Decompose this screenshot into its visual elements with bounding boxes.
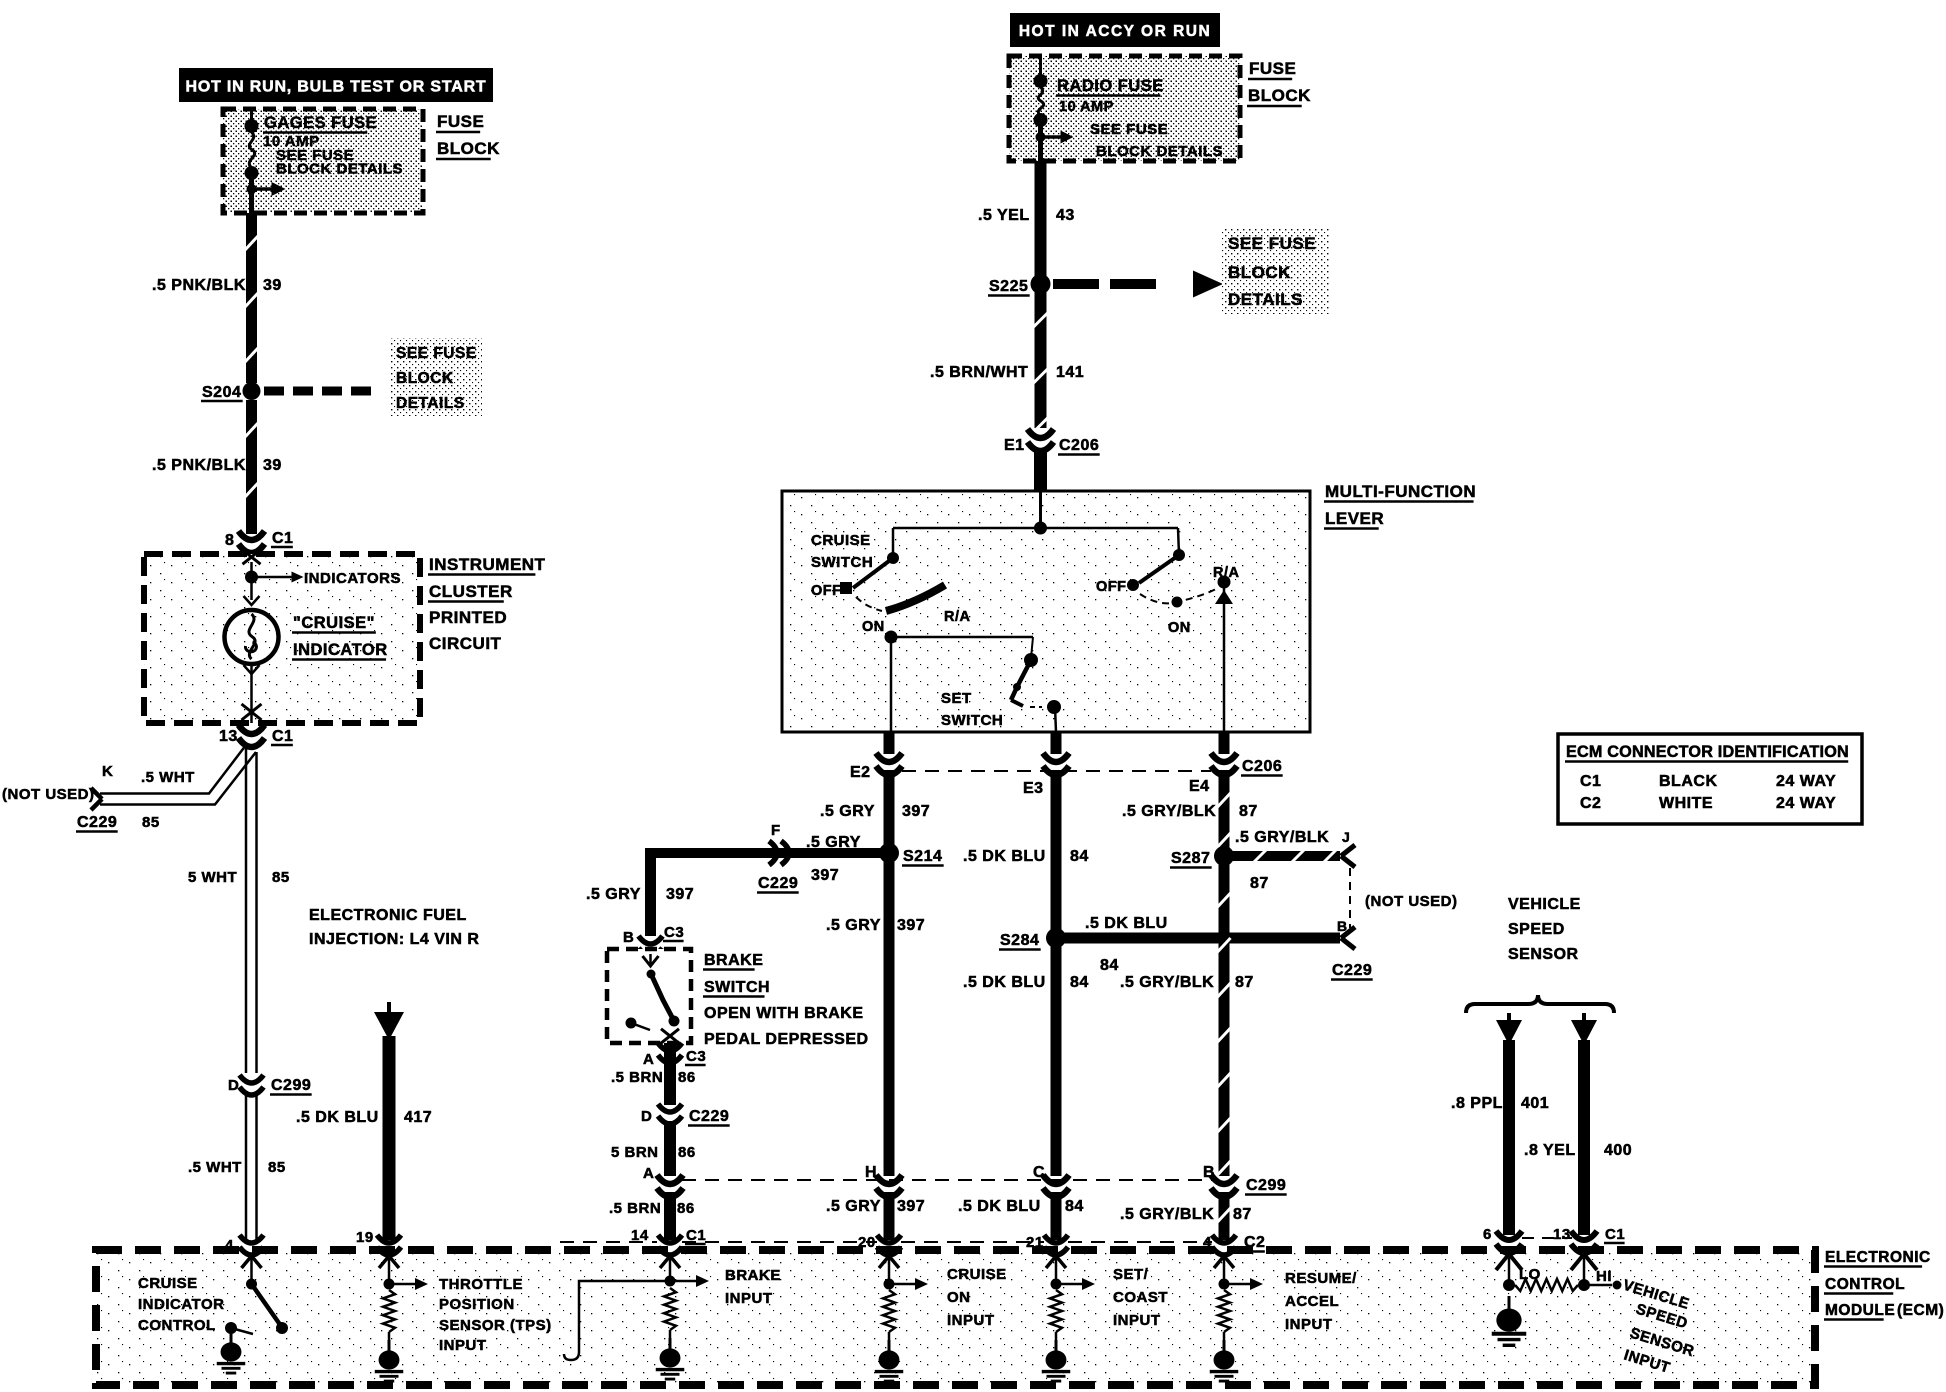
connector C206 pin E1: [1028, 429, 1054, 451]
svg-text:SEE FUSE: SEE FUSE: [1228, 234, 1316, 253]
svg-text:BLACK: BLACK: [1659, 773, 1718, 790]
label C2: [1243, 1234, 1265, 1252]
label (NOT USED) right: [1365, 893, 1458, 910]
resistor + ground (cruise on): [875, 1290, 904, 1381]
label C229 (D): [688, 1108, 730, 1126]
svg-text:F: F: [771, 822, 781, 839]
svg-text:R/A: R/A: [1213, 565, 1240, 581]
label OFF right: [1096, 579, 1127, 595]
svg-text:SPEED: SPEED: [1508, 921, 1565, 938]
wire 84 DK BLU horizontal (S284 to B): [1056, 933, 1340, 944]
wire 85 WHT vertical (outline): [246, 745, 257, 1073]
lamp terminal chevron top: [244, 596, 260, 605]
svg-text:SEE FUSE: SEE FUSE: [396, 345, 477, 362]
switch blade cruise indicator control: [252, 1284, 289, 1334]
wire 401 PPL with arrowhead: [1496, 1013, 1522, 1235]
ECM VSS HI input node: [1571, 1254, 1597, 1291]
label .5 DK BLU (above S284 wire): [1085, 915, 1168, 932]
label pin B (C299): [1203, 1164, 1215, 1181]
label S204: [201, 384, 243, 401]
svg-text:INDICATOR: INDICATOR: [138, 1296, 224, 1313]
label 84 (below S284 wire): [1100, 957, 1119, 974]
ECM cruise indicator control input: [242, 1256, 262, 1290]
svg-text:OPEN WITH BRAKE: OPEN WITH BRAKE: [704, 1005, 864, 1022]
contact OFF right dot: [1127, 579, 1139, 591]
label 87 (below S287): [1235, 974, 1254, 991]
svg-text:C206: C206: [1242, 758, 1282, 775]
label pin 13 (VSS): [1553, 1226, 1571, 1243]
ground (cruise indicator control): [217, 1332, 246, 1373]
svg-text:CONTROL: CONTROL: [138, 1317, 216, 1334]
connector C1 pin 8: [239, 531, 265, 553]
label pin B (C229): [1337, 918, 1348, 934]
arrow to INDICATORS: [252, 572, 304, 583]
svg-text:397: 397: [811, 867, 839, 884]
label S225: [988, 278, 1030, 296]
svg-text:E1: E1: [1004, 437, 1025, 454]
svg-text:PRINTED: PRINTED: [429, 608, 507, 627]
connector C206 pin E2: [876, 753, 902, 775]
switch blade right (to OFF): [1139, 555, 1179, 583]
svg-text:INSTRUMENT: INSTRUMENT: [429, 555, 546, 574]
svg-text:HOT IN RUN, BULB TEST OR START: HOT IN RUN, BULB TEST OR START: [185, 79, 486, 96]
svg-text:86: 86: [678, 1069, 696, 1086]
label pin D (C229): [641, 1108, 652, 1125]
label CRUISE INDICATOR CONTROL: [138, 1275, 224, 1334]
svg-text:C: C: [1033, 1164, 1045, 1181]
fuse GAGES FUSE terminal dot bottom: [245, 166, 259, 180]
label pin B (C3): [623, 929, 634, 946]
svg-text:ELECTRONIC: ELECTRONIC: [1825, 1249, 1931, 1266]
label 87 (E4): [1239, 803, 1258, 820]
svg-text:COAST: COAST: [1113, 1289, 1168, 1306]
label 86 (lower): [677, 1200, 695, 1217]
ground (VSS LO): [1492, 1296, 1527, 1345]
svg-text:.5 GRY: .5 GRY: [806, 834, 861, 851]
wire 87 GRY/BLK horizontal (S287 to J): [1224, 850, 1340, 862]
svg-text:5 WHT: 5 WHT: [188, 869, 237, 886]
svg-text:C1: C1: [272, 530, 293, 547]
svg-text:RADIO FUSE: RADIO FUSE: [1057, 77, 1164, 95]
connector pin 4 at ECM: [1212, 1235, 1236, 1255]
svg-text:RESUME/: RESUME/: [1285, 1270, 1357, 1287]
label 85 mid: [272, 869, 290, 886]
label pin E4: [1189, 778, 1210, 795]
label C1 (bottom): [271, 728, 293, 745]
svg-text:C2: C2: [1244, 1234, 1265, 1251]
hook wire (brake input): [564, 1281, 670, 1360]
connector C206 pin E4: [1211, 753, 1237, 775]
svg-text:BRAKE: BRAKE: [725, 1267, 781, 1284]
svg-text:INDICATOR: INDICATOR: [293, 641, 388, 659]
wire 397 GRY (H to 20): [884, 1192, 895, 1240]
wire set switch to E3: [1055, 707, 1056, 732]
label pin 13: [219, 728, 238, 745]
label 401: [1521, 1095, 1549, 1112]
svg-text:19: 19: [356, 1229, 374, 1246]
svg-text:43: 43: [1056, 207, 1075, 224]
label C3 (top): [663, 924, 684, 941]
svg-text:.5 YEL: .5 YEL: [978, 207, 1030, 224]
svg-text:5 BRN: 5 BRN: [611, 1144, 659, 1161]
brace over VSS wires: [1466, 995, 1614, 1013]
svg-text:13: 13: [219, 728, 238, 745]
svg-text:H: H: [865, 1164, 877, 1181]
wire HI to termination: [1584, 1281, 1622, 1290]
svg-text:.5 DK BLU: .5 DK BLU: [1085, 915, 1168, 932]
lamp CRUISE INDICATOR: [225, 610, 279, 664]
svg-text:.5 PNK/BLK: .5 PNK/BLK: [152, 277, 246, 294]
svg-text:.5 PNK/BLK: .5 PNK/BLK: [152, 457, 246, 474]
wire R/A to set switch: [1031, 637, 1033, 658]
label C1 (top): [271, 530, 293, 547]
label FUSE BLOCK (left): [436, 112, 500, 159]
label C206 (bottom): [1241, 758, 1283, 776]
label .5 WHT lower: [188, 1159, 242, 1176]
wire lever feed horizontal: [893, 527, 1178, 530]
wire 397 GRY (S214 to H): [884, 860, 895, 1176]
label 86 (A): [678, 1069, 696, 1086]
svg-text:.5 GRY: .5 GRY: [826, 917, 881, 934]
svg-text:13: 13: [1553, 1226, 1571, 1243]
svg-text:10 AMP: 10 AMP: [1059, 99, 1114, 115]
label INDICATORS: [304, 570, 401, 587]
label BLOCK DETAILS (gages): [276, 161, 403, 178]
svg-text:S284: S284: [1000, 932, 1039, 949]
arrow resume/accel input: [1224, 1278, 1263, 1290]
label GAGES FUSE: [263, 114, 377, 133]
svg-text:A: A: [643, 1165, 654, 1182]
svg-text:14: 14: [631, 1227, 649, 1244]
svg-text:(NOT USED): (NOT USED): [2, 786, 95, 803]
svg-text:E3: E3: [1023, 780, 1044, 797]
brake switch exit mark: [661, 1029, 679, 1043]
splice S287: [1214, 846, 1234, 866]
label C229 (F): [757, 875, 799, 893]
arrow TPS input: [389, 1278, 428, 1290]
wire stub into radio fuse: [1039, 58, 1042, 78]
ECM set/coast input node: [1046, 1256, 1066, 1290]
label S287: [1170, 850, 1212, 868]
splice S225: [1031, 274, 1051, 294]
label 397 (F below): [811, 867, 839, 884]
svg-text:S214: S214: [903, 848, 942, 865]
svg-text:ACCEL: ACCEL: [1285, 1293, 1339, 1310]
svg-text:FUSE: FUSE: [1249, 59, 1296, 78]
svg-text:86: 86: [678, 1144, 696, 1161]
label C1 (VSS): [1604, 1226, 1625, 1243]
svg-text:J: J: [1342, 829, 1350, 845]
banner HOT IN RUN, BULB TEST OR START: [179, 68, 493, 102]
wire 86 BRN (to D): [664, 1060, 676, 1105]
svg-text:.5 GRY: .5 GRY: [826, 1198, 881, 1215]
label SET SWITCH: [941, 690, 1003, 729]
label .5 WHT (K branch): [141, 769, 195, 786]
svg-text:CIRCUIT: CIRCUIT: [429, 634, 502, 653]
dashed connector line 6-13: [1522, 1237, 1572, 1239]
dashed gap set switch: [1030, 706, 1042, 708]
connector C229 pin K fishtail: [91, 788, 102, 810]
brake switch contact top dot: [647, 970, 656, 979]
label pin 19: [356, 1229, 374, 1246]
label pin 4 (C2): [1203, 1234, 1212, 1251]
splice S284: [1046, 928, 1066, 948]
label 5 BRN: [611, 1144, 659, 1161]
junction + arrow SEE FUSE BLOCK DETAILS (gages): [247, 182, 286, 196]
svg-text:ECM CONNECTOR IDENTIFICATION: ECM CONNECTOR IDENTIFICATION: [1566, 743, 1849, 761]
svg-text:397: 397: [902, 803, 930, 820]
switch blade left (to OFF): [853, 558, 893, 588]
wire 87 GRY/BLK (B to 4): [1218, 1192, 1231, 1240]
dashed connector line C299: [682, 1179, 1212, 1181]
svg-text:BLOCK DETAILS: BLOCK DETAILS: [276, 161, 403, 178]
dashed throw arc left: [856, 597, 882, 611]
svg-text:141: 141: [1056, 364, 1084, 381]
label THROTTLE POSITION SENSOR (TPS) INPUT: [439, 1276, 552, 1354]
svg-text:.5 BRN: .5 BRN: [611, 1069, 663, 1086]
splice S214: [879, 843, 899, 863]
svg-text:ON: ON: [862, 619, 885, 635]
wire 39 PNK/BLK lower segment: [245, 400, 258, 534]
label pin 6: [1483, 1226, 1492, 1243]
svg-text:.5 DK BLU: .5 DK BLU: [958, 1198, 1041, 1215]
svg-text:BRAKE: BRAKE: [704, 952, 763, 969]
svg-text:4: 4: [225, 1237, 234, 1254]
label BLOCK DETAILS (radio): [1096, 143, 1223, 160]
label 39 upper: [263, 277, 282, 294]
wire E2 stub: [884, 732, 895, 754]
label CRUISE SWITCH: [811, 532, 873, 571]
svg-text:A: A: [643, 1051, 654, 1068]
label .5 DK BLU (C): [958, 1198, 1041, 1215]
wire 39 PNK/BLK upper segment: [245, 213, 258, 383]
label pin H: [865, 1164, 877, 1181]
node left switch pivot: [887, 552, 899, 564]
wire 86 BRN (D to A): [664, 1121, 676, 1176]
svg-text:INDICATORS: INDICATORS: [304, 570, 401, 587]
svg-text:.8 PPL: .8 PPL: [1451, 1095, 1503, 1112]
svg-text:INPUT: INPUT: [439, 1337, 487, 1354]
ECM cruise on input node: [879, 1256, 899, 1290]
wire 141 BRN/WHT: [1034, 292, 1048, 432]
wire to left cruise switch pivot: [892, 528, 895, 558]
arc ON wiper left: [886, 585, 945, 611]
wire inside lever from top: [1039, 491, 1042, 528]
svg-text:BLOCK: BLOCK: [1228, 263, 1291, 282]
label pin J: [1342, 829, 1350, 845]
fuse block 2 (RADIO) dashed box: [1009, 56, 1240, 161]
wire 84 DK BLU (C to 21): [1051, 1192, 1062, 1240]
label .5 BRN (A): [611, 1069, 663, 1086]
svg-text:BLOCK: BLOCK: [1248, 86, 1311, 105]
label 86 (mid): [678, 1144, 696, 1161]
brake switch fixed contact: [626, 1018, 651, 1031]
svg-text:INPUT: INPUT: [947, 1312, 995, 1329]
label FUSE BLOCK (right): [1247, 59, 1311, 106]
connector pin 21 at ECM: [1044, 1235, 1068, 1255]
svg-text:CRUISE: CRUISE: [138, 1275, 198, 1292]
label 397 (H): [897, 1198, 925, 1215]
label pin F: [771, 822, 781, 839]
svg-text:C3: C3: [664, 924, 684, 941]
svg-text:E2: E2: [850, 764, 871, 781]
svg-text:SENSOR: SENSOR: [1508, 946, 1579, 963]
fuse block 1 (GAGES) dashed box: [223, 109, 423, 213]
label 397 (below S214): [897, 917, 925, 934]
resistor + ground (brake input): [656, 1288, 685, 1379]
resistor + ground (resume/accel): [1210, 1290, 1239, 1381]
wire inside gages box to bottom: [249, 173, 254, 213]
label .5 DK BLU 417: [296, 1109, 432, 1126]
label .8 YEL: [1524, 1142, 1576, 1159]
svg-text:.5 GRY/BLK: .5 GRY/BLK: [1120, 1206, 1214, 1223]
svg-text:87: 87: [1250, 875, 1269, 892]
svg-text:85: 85: [142, 814, 160, 831]
wire E1 to multi-function lever: [1034, 448, 1047, 492]
svg-text:C299: C299: [1246, 1177, 1286, 1194]
label .5 DK BLU (below S284): [963, 974, 1046, 991]
svg-text:SENSOR (TPS): SENSOR (TPS): [439, 1317, 552, 1334]
svg-text:.5 GRY/BLK: .5 GRY/BLK: [1235, 829, 1329, 846]
svg-text:S287: S287: [1171, 850, 1210, 867]
svg-text:C1: C1: [1605, 1226, 1625, 1243]
node indicators junction dot: [245, 562, 258, 600]
fuse RADIO FUSE terminal dot top: [1034, 74, 1048, 88]
label SEE FUSE (radio): [1090, 121, 1168, 138]
resistor + ground (TPS): [375, 1290, 404, 1381]
label VEHICLE SPEED SENSOR INPUT (slanted): [1621, 1277, 1696, 1377]
svg-text:C1: C1: [1580, 773, 1601, 790]
connector C206 pin E3: [1043, 753, 1069, 775]
label pin 21: [1026, 1234, 1044, 1251]
label 39 lower: [263, 457, 282, 474]
svg-text:HI: HI: [1596, 1268, 1612, 1285]
wire 84 DK BLU (E3 to S284): [1051, 770, 1062, 931]
label .5 GRY (F right): [806, 834, 861, 851]
svg-text:24 WAY: 24 WAY: [1776, 773, 1836, 790]
ECM TPS input node: [379, 1256, 399, 1290]
contact cruise indicator control: [225, 1322, 253, 1334]
connector pin 14 at ECM: [658, 1235, 682, 1255]
label 397 (E2): [902, 803, 930, 820]
label .5 YEL: [978, 207, 1030, 224]
label SET/COAST INPUT: [1113, 1266, 1168, 1329]
label 43: [1056, 207, 1075, 224]
label "CRUISE" INDICATOR: [292, 614, 388, 660]
label 10 AMP (radio): [1059, 99, 1114, 115]
arrow brake input: [670, 1275, 709, 1287]
svg-text:6: 6: [1483, 1226, 1492, 1243]
svg-text:S204: S204: [202, 384, 241, 401]
svg-text:CRUISE: CRUISE: [947, 1266, 1007, 1283]
label .5 BRN (lower): [609, 1200, 661, 1217]
label 141: [1056, 364, 1084, 381]
ECM VSS LO input node: [1496, 1254, 1522, 1291]
label .5 GRY (left of corner): [586, 886, 641, 903]
svg-text:.5 GRY: .5 GRY: [586, 886, 641, 903]
svg-text:BLOCK: BLOCK: [396, 370, 454, 387]
connector C1 pin 13: [239, 725, 265, 747]
svg-text:.5 WHT: .5 WHT: [141, 769, 195, 786]
connector C229 pin D: [658, 1104, 682, 1124]
connector C229 pin J fishtail: [1341, 845, 1355, 867]
arrow S225 to fuse block details: [1053, 271, 1223, 298]
svg-text:HOT IN ACCY OR RUN: HOT IN ACCY OR RUN: [1019, 23, 1211, 40]
svg-text:85: 85: [272, 869, 290, 886]
svg-text:C229: C229: [758, 875, 798, 892]
brake switch contact bottom dot: [669, 1016, 680, 1027]
wire left output to E2: [890, 637, 893, 732]
label 87 (B): [1233, 1206, 1252, 1223]
dashed connector line C206: [902, 770, 1211, 772]
node left switch output dot: [885, 631, 898, 644]
label pin 14: [631, 1227, 649, 1244]
brake switch entry arrow: [643, 954, 659, 966]
label S214: [902, 848, 944, 866]
label pin A (C299): [643, 1165, 654, 1182]
svg-text:.5 BRN: .5 BRN: [609, 1200, 661, 1217]
exit mark from cluster: [242, 704, 262, 723]
connector C229 pin F: [769, 841, 789, 865]
svg-text:84: 84: [1100, 957, 1119, 974]
svg-text:C1: C1: [686, 1227, 706, 1244]
wire 400 YEL with arrowhead: [1571, 1013, 1597, 1235]
label C206 (E1): [1058, 437, 1100, 455]
label .5 DK BLU (E3): [963, 848, 1046, 865]
svg-text:INPUT: INPUT: [725, 1290, 773, 1307]
svg-text:(NOT USED): (NOT USED): [1365, 893, 1458, 910]
svg-text:85: 85: [268, 1159, 286, 1176]
label ON left: [862, 619, 885, 635]
connector pin 13 at ECM: [1571, 1231, 1597, 1253]
svg-text:MULTI-FUNCTION: MULTI-FUNCTION: [1325, 482, 1476, 501]
svg-text:87: 87: [1239, 803, 1258, 820]
svg-text:C229: C229: [77, 814, 117, 831]
svg-text:39: 39: [263, 457, 282, 474]
label S284: [999, 932, 1041, 950]
label C299 (D): [270, 1077, 312, 1095]
label BRAKE INPUT: [725, 1267, 781, 1307]
label 85 lower: [268, 1159, 286, 1176]
dashed throw arc right: [1140, 588, 1218, 603]
node right switch pivot: [1173, 549, 1185, 561]
connector C3 pin A: [658, 1043, 682, 1063]
svg-text:VEHICLE: VEHICLE: [1508, 896, 1581, 913]
svg-text:SWITCH: SWITCH: [704, 979, 770, 996]
svg-text:.5 DK BLU: .5 DK BLU: [963, 848, 1046, 865]
svg-text:SWITCH: SWITCH: [811, 554, 873, 571]
svg-text:SET: SET: [941, 690, 972, 707]
label C3 (bottom): [685, 1048, 706, 1065]
svg-text:87: 87: [1233, 1206, 1252, 1223]
instrument cluster dashed box: [144, 554, 420, 723]
label .5 GRY/BLK (E4): [1122, 803, 1216, 820]
label C299 (right end): [1245, 1177, 1287, 1195]
dashed connector line C1/C2: [560, 1241, 1212, 1243]
label .5 GRY (E2): [820, 803, 875, 820]
label BRAKE SWITCH: [703, 952, 869, 1048]
label ELECTRONIC FUEL INJECTION: L4 VIN R: [309, 907, 479, 948]
svg-text:THROTTLE: THROTTLE: [439, 1276, 523, 1293]
svg-text:GAGES FUSE: GAGES FUSE: [264, 114, 377, 132]
svg-text:84: 84: [1070, 974, 1089, 991]
svg-text:C206: C206: [1059, 437, 1099, 454]
label C229 (right): [1331, 962, 1373, 980]
connector pin 4 at ECM: [240, 1235, 264, 1255]
label pin A (C3): [643, 1051, 654, 1068]
label INSTRUMENT CLUSTER PRINTED CIRCUIT: [428, 555, 546, 653]
contact OFF left (square): [840, 582, 852, 594]
